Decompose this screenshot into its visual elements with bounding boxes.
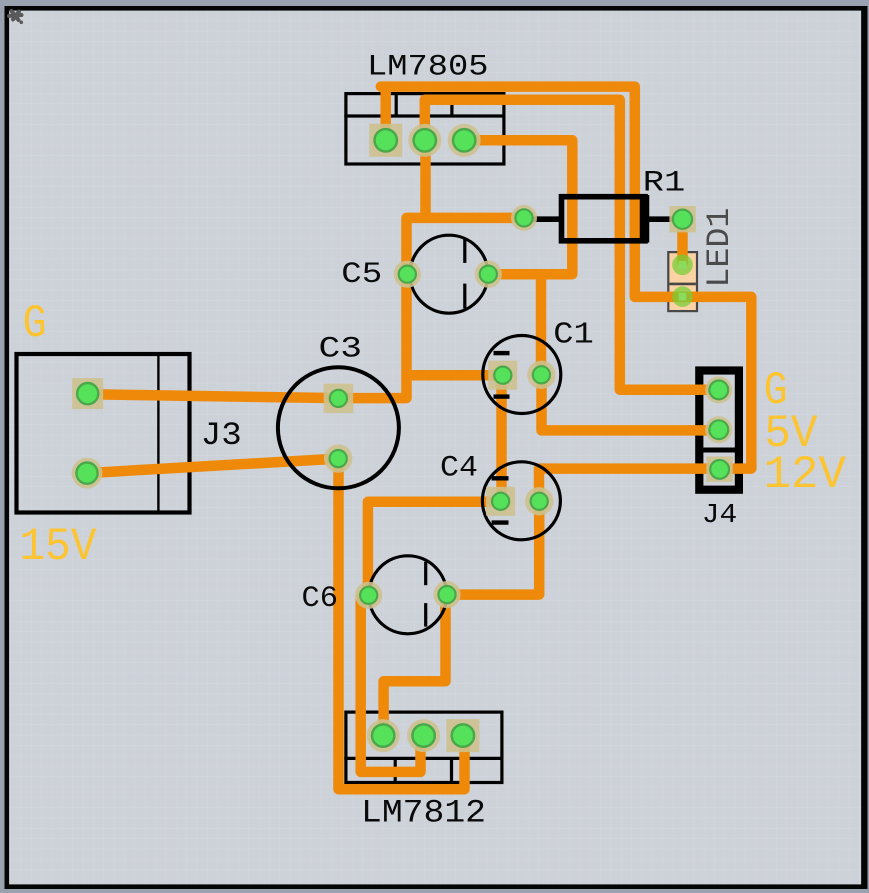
wire C6+ down to 7812 pin1 xyxy=(384,590,446,736)
resistor R1 xyxy=(524,195,683,243)
svg-text:R1: R1 xyxy=(643,166,686,200)
pad R1-2 / LED anode xyxy=(669,206,695,232)
pad C5-1 xyxy=(394,261,421,288)
wire R1 pad to LED1 anode xyxy=(677,219,688,265)
wire via to C5- to C3+ to J3-1 xyxy=(88,218,524,398)
pad 7812-3 xyxy=(446,719,479,752)
pad J3-2 xyxy=(72,458,103,489)
regulator LM7805 outline xyxy=(344,94,505,164)
pad 7805-2 xyxy=(408,124,441,157)
traces xyxy=(87,84,751,789)
svg-text:LM7812: LM7812 xyxy=(361,795,486,832)
pad J4-2 xyxy=(705,416,732,443)
pad 7805-1 xyxy=(369,124,402,157)
wire C1+ to J4-2 xyxy=(542,375,720,430)
wire 7805 pin3 to C5+ xyxy=(464,140,572,274)
pad 7812-1 xyxy=(367,719,400,752)
wire C1- down to C4- xyxy=(496,375,507,501)
pad J4-3 xyxy=(706,456,732,482)
svg-text:LED1: LED1 xyxy=(701,208,738,288)
svg-text:C5: C5 xyxy=(341,258,382,292)
svg-text:G: G xyxy=(23,297,47,350)
pad C5-2 xyxy=(475,261,502,288)
wire C4- left and down to 7812 pin2 xyxy=(361,502,501,772)
regulator LM7812 outline xyxy=(344,712,503,782)
pad C3-2 xyxy=(324,444,352,472)
pad C1-2 xyxy=(527,361,555,389)
wire J3-2 to C3- down to 7812 pin3 xyxy=(87,459,465,790)
connector J4 outline xyxy=(697,371,741,490)
wire 7805 pin2 down to via row xyxy=(420,140,431,222)
pad LED1-2 xyxy=(672,286,693,307)
wire branch to C1- xyxy=(402,370,503,381)
wire 7805 pin1 to top rail xyxy=(380,84,391,140)
cursor mark xyxy=(9,11,23,24)
svg-text:J3: J3 xyxy=(201,417,242,454)
pad C6-1 xyxy=(355,582,382,609)
pad J4-1 xyxy=(705,376,732,403)
pads xyxy=(72,124,733,752)
pad C4-2 xyxy=(525,487,553,515)
pad C6-2 xyxy=(433,581,460,608)
pad J3-1 xyxy=(72,378,103,409)
silkscreen labels yellow xyxy=(20,297,847,573)
wire branch down to C1+ xyxy=(536,269,547,375)
pad 7812-2 xyxy=(407,719,440,752)
connector J3 outline xyxy=(17,352,190,514)
capacitor C1 xyxy=(483,336,561,414)
wire C4+ down to C6+ xyxy=(447,496,539,595)
pad C1-1 xyxy=(488,361,517,390)
wire 12V rail: top across, down right side, to J4-3 and C4+ xyxy=(381,87,752,502)
svg-text:J4: J4 xyxy=(702,501,738,531)
LED1 body xyxy=(668,252,697,311)
svg-text:C6: C6 xyxy=(302,582,339,616)
capacitor C5 xyxy=(410,235,488,313)
svg-text:C4: C4 xyxy=(440,451,478,485)
svg-text:12V: 12V xyxy=(764,448,847,501)
svg-text:C1: C1 xyxy=(553,318,594,353)
pad C3-1 xyxy=(324,384,354,414)
wire J4-1 across top to 7805 pin2 xyxy=(425,100,720,390)
capacitor C4 xyxy=(482,462,560,540)
capacitor C6 xyxy=(369,556,447,634)
svg-text:C3: C3 xyxy=(319,333,363,367)
pad C4-1 xyxy=(486,487,515,516)
pad 7805-3 xyxy=(448,124,481,157)
svg-text:15V: 15V xyxy=(20,520,97,573)
pad LED1-1 xyxy=(672,254,693,275)
svg-text:LM7805: LM7805 xyxy=(367,50,489,84)
capacitor C3 xyxy=(278,367,399,488)
via xyxy=(511,205,537,231)
